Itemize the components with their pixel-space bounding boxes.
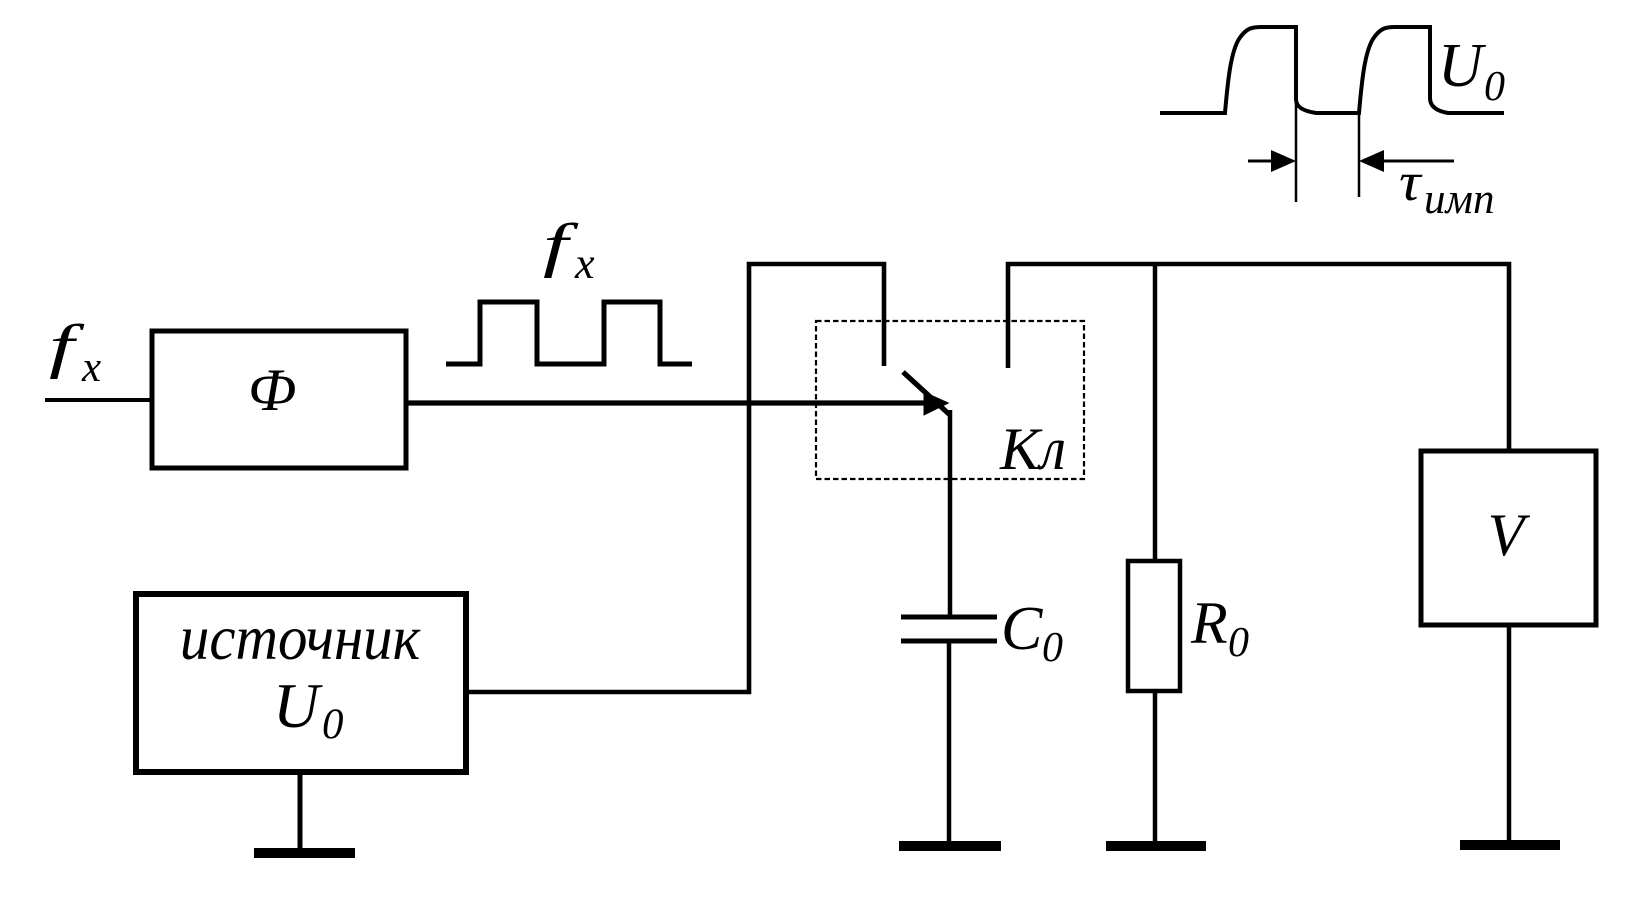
label U0 waveform bbox=[1438, 32, 1505, 110]
switch Кл dashed box bbox=[816, 321, 1084, 479]
resistor R0 bbox=[1128, 561, 1180, 691]
node fx wave label bbox=[543, 212, 595, 288]
svg-text:0: 0 bbox=[1042, 625, 1063, 671]
wire fx input bbox=[45, 398, 154, 402]
waveform fx square wave bbox=[446, 302, 692, 364]
ground voltmeter bbox=[1460, 840, 1560, 850]
label U0 source bbox=[273, 670, 344, 748]
svg-text:V: V bbox=[1488, 502, 1531, 568]
arrow left of tau dimension bbox=[1248, 160, 1278, 163]
capacitor C0 plates bbox=[901, 615, 997, 620]
wire source to ground bbox=[298, 771, 303, 852]
wire voltmeter to ground bbox=[1507, 625, 1512, 845]
label tau imp bbox=[1399, 151, 1494, 223]
svg-text:U: U bbox=[1438, 32, 1487, 100]
svg-text:x: x bbox=[574, 239, 595, 288]
svg-text:x: x bbox=[81, 344, 101, 391]
wire R0 to ground bbox=[1153, 691, 1158, 846]
svg-text:Ф: Ф bbox=[248, 357, 296, 423]
label C0 bbox=[1001, 595, 1063, 671]
wire R0 branch from top rail bbox=[1153, 264, 1158, 561]
svg-text:источник: источник bbox=[180, 603, 421, 674]
source U0 box bbox=[136, 594, 466, 772]
label R0 bbox=[1190, 590, 1249, 666]
svg-text:0: 0 bbox=[1484, 64, 1505, 110]
measurement line right bbox=[1358, 113, 1361, 197]
shaper block F (Ф) bbox=[152, 331, 406, 468]
arrowhead bbox=[924, 391, 950, 415]
wire switch common to capacitor bbox=[948, 410, 953, 617]
wire Ф output with arrow to switch bbox=[406, 400, 926, 405]
wire U0 source to switch left contact bbox=[467, 264, 884, 692]
svg-text:0: 0 bbox=[1228, 620, 1249, 666]
svg-text:C: C bbox=[1001, 595, 1043, 663]
svg-text:имп: имп bbox=[1424, 176, 1494, 223]
svg-text:τ: τ bbox=[1399, 151, 1423, 213]
wire capacitor to ground bbox=[947, 641, 952, 846]
switch lever bbox=[903, 372, 950, 415]
node fx input label bbox=[49, 313, 101, 391]
waveform U0 pulses top right bbox=[1160, 27, 1504, 113]
svg-text:R: R bbox=[1190, 590, 1228, 656]
svg-text:Кл: Кл bbox=[999, 416, 1066, 482]
svg-text:U: U bbox=[273, 670, 323, 741]
voltmeter V box bbox=[1421, 451, 1596, 625]
wire switch right contact to voltmeter bbox=[1008, 264, 1509, 451]
ground source bbox=[254, 848, 355, 858]
svg-text:0: 0 bbox=[322, 701, 344, 748]
arrow right of tau dimension bbox=[1376, 160, 1454, 163]
measurement line left bbox=[1295, 95, 1298, 202]
ground capacitor bbox=[899, 841, 1001, 851]
ground R0 bbox=[1106, 841, 1206, 851]
